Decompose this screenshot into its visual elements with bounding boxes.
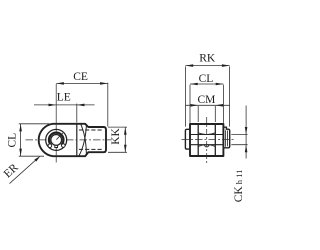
- pin hole circle: [51, 135, 62, 146]
- svg-text:CK h 11: CK h 11: [233, 170, 245, 203]
- svg-text:CL: CL: [7, 133, 19, 148]
- CL dimension (end view): [190, 84, 223, 123]
- pin head outer circle: [46, 129, 67, 150]
- CL left arrow: [190, 83, 198, 86]
- clip edge line 2: [226, 131, 228, 147]
- svg-text:CM: CM: [197, 94, 215, 106]
- CE left arrow: [56, 82, 64, 85]
- RK left arrow: [186, 64, 194, 67]
- horizontal centerline (end view): [182, 139, 235, 141]
- slot bottom arc (front): [81, 124, 87, 154]
- CL dimension (left view): [19, 124, 50, 156]
- thread hidden line bottom: [79, 148, 104, 150]
- pin head side bump: [185, 129, 190, 149]
- vertical centerline (end view): [206, 117, 208, 165]
- KK bottom arrow: [124, 145, 127, 153]
- svg-text:CE: CE: [73, 71, 88, 83]
- CM left arrow: [191, 104, 199, 107]
- LE left arrow: [49, 104, 57, 107]
- clip edge line 1: [224, 130, 226, 147]
- thread hidden line top: [79, 129, 104, 131]
- e-clip left lug: [48, 144, 52, 148]
- CE right arrow: [100, 82, 108, 85]
- LE dimension line: [34, 104, 95, 123]
- CL top arrow: [19, 124, 22, 132]
- CK bottom arrow: [245, 145, 248, 153]
- CK top arrow: [245, 127, 248, 135]
- fork face line: [76, 124, 78, 156]
- pin gap line: [56, 133, 62, 140]
- clip side bump: [223, 127, 229, 148]
- pin end bump: [205, 145, 209, 147]
- svg-text:CL: CL: [199, 73, 214, 85]
- slot arc upper: [198, 133, 215, 135]
- slot edge right: [214, 124, 216, 156]
- CL bottom arrow: [19, 149, 22, 157]
- RK right arrow: [222, 64, 230, 67]
- CK dimension: [231, 106, 247, 159]
- clevis body outline: [39, 124, 106, 156]
- KK dimension: [108, 127, 127, 152]
- CE dimension line: [56, 83, 108, 127]
- svg-text:LE: LE: [57, 92, 71, 104]
- LE right arrow: [77, 104, 85, 107]
- ER leader line: [10, 159, 37, 183]
- KK top arrow: [124, 127, 127, 135]
- CL right arrow: [216, 83, 224, 86]
- vertical centerline / CE-LE extension at hole center: [55, 84, 57, 163]
- svg-text:RK: RK: [199, 52, 216, 64]
- pin top line: [190, 134, 223, 136]
- e-clip right lug: [62, 144, 66, 148]
- horizontal centerline: [26, 139, 112, 141]
- fork outer rectangle: [190, 124, 223, 156]
- slot arc lower: [198, 145, 215, 147]
- e-clip band: [49, 133, 64, 146]
- CM dimension: [186, 105, 230, 122]
- svg-text:KK: KK: [110, 127, 122, 144]
- ER leader arrow: [34, 156, 40, 162]
- e-clip bottom prong: [55, 145, 58, 147]
- RK dimension: [186, 66, 230, 127]
- pin bottom line: [190, 144, 223, 146]
- CM right arrow: [215, 104, 223, 107]
- slot bottom arc (back): [79, 126, 87, 156]
- slot edge left: [197, 124, 199, 156]
